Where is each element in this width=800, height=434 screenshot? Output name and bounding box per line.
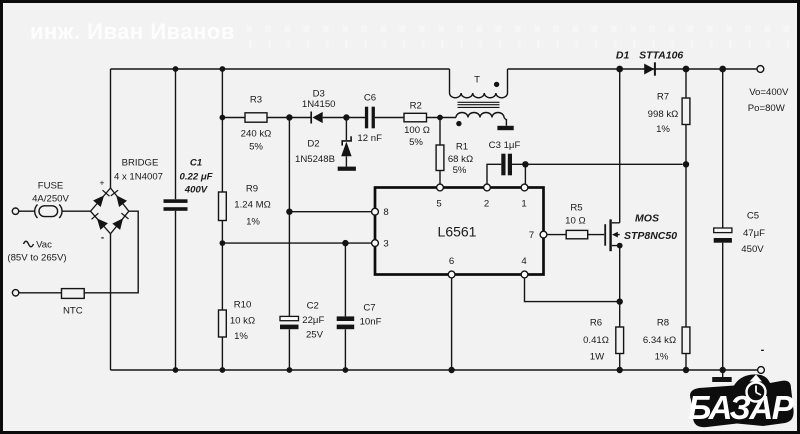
phase dot primary [494, 82, 499, 87]
wire ntc input [19, 292, 62, 294]
svg-text:998 kΩ: 998 kΩ [648, 109, 679, 120]
svg-text:R8: R8 [657, 318, 669, 329]
svg-text:T: T [474, 75, 480, 86]
resistor R6 [616, 327, 624, 354]
svg-text:0.41Ω: 0.41Ω [583, 335, 609, 346]
svg-text:22μF: 22μF [302, 315, 324, 326]
svg-text:12 nF: 12 nF [357, 133, 382, 144]
svg-text:5%: 5% [453, 165, 467, 176]
svg-text:R6: R6 [590, 318, 602, 329]
transformer T primary [450, 69, 508, 98]
svg-text:R9: R9 [246, 184, 258, 195]
wire bottom bus [111, 369, 758, 371]
pin 7 [540, 231, 547, 238]
svg-text:NTC: NTC [63, 306, 83, 317]
svg-text:Vac: Vac [36, 240, 52, 251]
wire ntc to bridge [84, 211, 138, 293]
wire R7 column [685, 69, 687, 370]
svg-text:7: 7 [529, 230, 534, 241]
svg-text:1%: 1% [246, 217, 260, 228]
svg-text:C2: C2 [307, 301, 319, 312]
svg-text:C5: C5 [747, 211, 759, 222]
svg-text:+: + [100, 178, 105, 188]
resistor R5 [566, 230, 588, 238]
wire bridge bottom to bus [110, 234, 112, 370]
svg-text:(85V to 265V): (85V to 265V) [7, 253, 66, 264]
capacitor C6 [365, 107, 375, 129]
ground D2 [338, 167, 356, 171]
wire pin7 to R5 [547, 234, 604, 236]
bridge rectifier [91, 188, 129, 234]
resistor R9 [219, 192, 227, 221]
AC sine symbol [24, 241, 34, 247]
wire D2 branch [345, 118, 347, 141]
terminal output - [758, 367, 765, 374]
capacitor C3 [501, 154, 512, 176]
svg-text:240 kΩ: 240 kΩ [241, 129, 272, 140]
svg-text:1N4150: 1N4150 [302, 99, 336, 110]
svg-text:D2: D2 [307, 139, 319, 150]
wire pin8 [289, 211, 371, 213]
pin 6 [448, 271, 455, 278]
svg-text:450V: 450V [741, 244, 764, 255]
svg-text:R2: R2 [410, 101, 422, 112]
svg-text:1%: 1% [655, 352, 669, 363]
svg-text:5%: 5% [249, 142, 263, 153]
svg-text:R1: R1 [456, 142, 468, 153]
wire R3 R9 R10 column [221, 69, 223, 370]
wire drain column [619, 69, 621, 223]
transformer T secondary [456, 113, 506, 126]
svg-text:MOS: MOS [635, 213, 659, 225]
svg-text:47μF: 47μF [743, 228, 765, 239]
pin 3 [372, 240, 379, 247]
wire source to R6 [619, 246, 621, 370]
wire D2 to ground [345, 156, 347, 166]
wire fuse input [19, 210, 35, 212]
svg-text:5: 5 [436, 198, 441, 209]
svg-text:BRIDGE: BRIDGE [122, 158, 159, 169]
svg-text:0.22 μF: 0.22 μF [180, 172, 214, 183]
svg-text:5%: 5% [409, 137, 423, 148]
svg-text:C7: C7 [363, 303, 375, 314]
svg-text:Po=80W: Po=80W [748, 103, 786, 114]
capacitor C7 [337, 316, 355, 329]
svg-text:C1: C1 [190, 158, 202, 169]
svg-text:3: 3 [383, 238, 388, 249]
terminal input N [12, 290, 18, 296]
svg-text:4A/250V: 4A/250V [32, 194, 69, 205]
svg-text:C3 1μF: C3 1μF [489, 140, 521, 151]
svg-text:4 x 1N4007: 4 x 1N4007 [114, 172, 163, 183]
svg-text:L6561: L6561 [438, 224, 477, 240]
resistor R7 [682, 98, 690, 125]
diode D3 [311, 112, 323, 124]
svg-text:D1: D1 [616, 49, 630, 61]
svg-text:Vo=400V: Vo=400V [749, 87, 789, 98]
svg-text:STP8NC50: STP8NC50 [624, 230, 677, 242]
resistor R3 [245, 113, 267, 122]
wire top bus right [508, 68, 758, 70]
terminal input L [12, 208, 18, 214]
zener diode D2 [341, 136, 351, 156]
wire left vertical to bridge [110, 69, 112, 188]
phase dot secondary [456, 121, 461, 126]
BAZAR logo [688, 374, 795, 427]
svg-text:1: 1 [521, 198, 526, 209]
wire C7 column [344, 243, 346, 370]
transistor Q1 MOSFET [605, 219, 620, 251]
svg-text:68 kΩ: 68 kΩ [448, 154, 473, 165]
svg-text:10 kΩ: 10 kΩ [230, 316, 255, 327]
pin 2 [484, 184, 491, 191]
svg-text:R5: R5 [570, 203, 582, 214]
svg-text:БАЗАР: БАЗАР [688, 389, 795, 426]
pin 1 [521, 184, 528, 191]
svg-text:1%: 1% [656, 124, 670, 135]
capacitor C2 electrolytic [280, 316, 299, 329]
NTC thermistor [62, 289, 85, 299]
svg-text:400V: 400V [184, 185, 209, 196]
wire mid bus y118 [222, 117, 456, 119]
svg-text:C6: C6 [364, 93, 376, 104]
svg-text:1.24 MΩ: 1.24 MΩ [234, 200, 271, 211]
svg-text:инж. Иван Иванов: инж. Иван Иванов [30, 19, 235, 44]
svg-text:25V: 25V [306, 330, 324, 341]
svg-text:-: - [761, 344, 765, 356]
svg-text:1%: 1% [234, 331, 248, 342]
svg-text:10 Ω: 10 Ω [565, 216, 586, 227]
svg-text:2: 2 [484, 198, 489, 209]
pin 4 [521, 271, 528, 278]
diode D1 [644, 62, 655, 75]
svg-text:8: 8 [383, 207, 388, 218]
wire R1 column [439, 118, 441, 185]
wire pin3 [222, 242, 371, 244]
wire C3 branch [487, 164, 683, 184]
ground secondary [497, 126, 513, 130]
svg-text:1W: 1W [590, 352, 605, 363]
svg-text:FUSE: FUSE [38, 181, 64, 192]
svg-text:4: 4 [521, 256, 527, 267]
terminal output + [757, 66, 764, 73]
wire top bus left [111, 68, 450, 70]
svg-text:6: 6 [449, 256, 454, 267]
svg-text:STTA106: STTA106 [639, 49, 683, 61]
wire C5 column [722, 69, 724, 377]
svg-text:10nF: 10nF [360, 317, 382, 328]
capacitor C5 electrolytic [714, 228, 732, 243]
wire C2 column [288, 118, 290, 371]
resistor R2 [404, 113, 427, 122]
fuse F1 [35, 205, 62, 219]
resistor R8 [682, 327, 690, 354]
svg-text:100 Ω: 100 Ω [404, 125, 430, 136]
IC U1 L6561 box [375, 188, 544, 275]
capacitor C1 [164, 199, 188, 211]
svg-text:D3: D3 [313, 89, 325, 100]
pin 5 [437, 184, 444, 191]
transformer core [458, 102, 500, 107]
resistor R10 [219, 310, 227, 337]
svg-text:1N5248B: 1N5248B [295, 154, 335, 165]
ground output [712, 377, 732, 382]
svg-text:-: - [101, 233, 104, 244]
pin 8 [372, 208, 379, 215]
wire fuse to bridge [62, 210, 91, 212]
resistor R1 [436, 145, 444, 171]
svg-text:R3: R3 [250, 95, 262, 106]
svg-text:6.34 kΩ: 6.34 kΩ [643, 335, 676, 346]
wire C1 column [175, 69, 177, 370]
svg-text:R7: R7 [657, 92, 669, 103]
wire pin6 [451, 278, 453, 370]
wire pin4 [525, 278, 620, 302]
svg-text:R10: R10 [234, 300, 252, 311]
